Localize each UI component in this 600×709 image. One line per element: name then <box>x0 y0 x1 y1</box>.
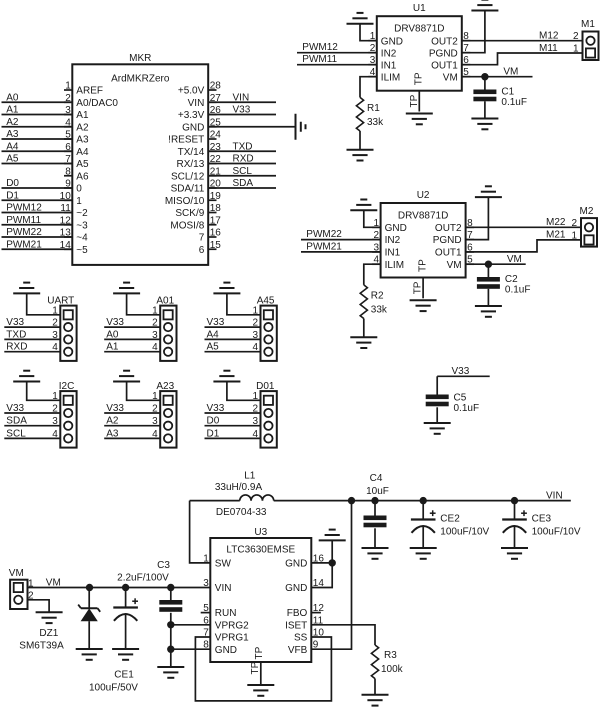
wire R1 to ground <box>359 131 361 149</box>
wire A45 net A4 <box>205 329 261 340</box>
connector UART body <box>47 295 76 361</box>
wire U1 PGND to ground <box>462 11 485 53</box>
ground VM header pin2 <box>36 612 63 623</box>
wire VM header pin2 to ground <box>28 600 50 612</box>
svg-text:VM: VM <box>46 577 61 588</box>
svg-text:VM: VM <box>503 67 518 78</box>
ground U1 PGND <box>471 0 498 11</box>
wire A01 pin1 to ground <box>127 293 161 314</box>
ground U1 pin1 <box>347 13 374 24</box>
wire L1 left <box>190 500 240 502</box>
svg-text:IN2: IN2 <box>385 235 401 246</box>
capacitor C4 10uF <box>364 473 389 527</box>
ground for A23 <box>113 371 140 382</box>
svg-text:MISO/10: MISO/10 <box>165 196 205 207</box>
wire U3 GND8 <box>171 648 211 650</box>
IC U3 LTC3630EMSE body <box>210 527 311 662</box>
svg-text:24: 24 <box>210 130 222 141</box>
svg-text:A5: A5 <box>207 342 220 353</box>
svg-text:2: 2 <box>571 218 577 229</box>
wire I2C net SCL <box>4 428 60 439</box>
wire U3 GND16 <box>311 562 332 564</box>
svg-text:U2: U2 <box>417 190 430 201</box>
wire U2 OUT1 to M2 pin1 <box>466 230 581 252</box>
svg-text:R1: R1 <box>367 103 380 114</box>
svg-text:A6: A6 <box>76 171 89 182</box>
svg-text:18: 18 <box>210 203 222 214</box>
svg-text:IN2: IN2 <box>381 48 397 59</box>
ground CE1 <box>112 649 139 660</box>
svg-text:C3: C3 <box>157 560 170 571</box>
svg-text:TX/14: TX/14 <box>178 147 205 158</box>
junction C3-VPRG2 <box>167 621 174 628</box>
svg-text:10uF: 10uF <box>366 486 389 497</box>
ground C5 <box>424 423 451 434</box>
wire VM rail <box>28 577 211 588</box>
svg-text:A3: A3 <box>106 428 119 439</box>
svg-text:D0: D0 <box>6 178 19 189</box>
wire D01 pin1 to ground <box>227 382 261 401</box>
resistor R3 100k <box>371 645 403 679</box>
svg-text:M2: M2 <box>580 206 594 217</box>
svg-text:CE2: CE2 <box>440 514 460 525</box>
svg-text:PWM12: PWM12 <box>6 203 42 214</box>
svg-text:PGND: PGND <box>433 235 462 246</box>
wire A23 pin1 to ground <box>127 382 161 401</box>
svg-text:SS: SS <box>294 633 308 644</box>
ground for UART <box>13 283 40 294</box>
svg-text:OUT1: OUT1 <box>435 248 462 259</box>
svg-text:DRV8871D: DRV8871D <box>398 210 448 221</box>
junction C4 <box>371 497 378 504</box>
svg-text:VM: VM <box>447 260 462 271</box>
junction DZ1 <box>86 584 93 591</box>
svg-text:SW: SW <box>215 559 232 570</box>
svg-text:V33: V33 <box>207 317 225 328</box>
junction C3-GND <box>167 646 174 653</box>
svg-text:VM: VM <box>9 568 24 579</box>
svg-text:C4: C4 <box>370 473 383 484</box>
IC U2 pins <box>372 218 474 272</box>
svg-text:A3: A3 <box>6 129 19 140</box>
svg-text:VFB: VFB <box>288 645 308 656</box>
svg-text:0.1uF: 0.1uF <box>454 403 480 414</box>
svg-text:16: 16 <box>210 228 222 239</box>
svg-text:V33: V33 <box>207 403 225 414</box>
test point TP of U2 <box>413 278 424 299</box>
svg-text:PWM22: PWM22 <box>306 229 342 240</box>
svg-text:C2: C2 <box>505 274 518 285</box>
svg-text:A4: A4 <box>76 147 89 158</box>
wire U3 FBO stub <box>311 612 321 614</box>
wire U3 ISET to R3 <box>311 625 375 645</box>
svg-text:VM: VM <box>443 72 458 83</box>
svg-text:A1: A1 <box>106 342 119 353</box>
svg-text:DZ1: DZ1 <box>39 628 58 639</box>
svg-text:M12: M12 <box>539 31 559 42</box>
svg-text:OUT2: OUT2 <box>435 223 462 234</box>
svg-text:V33: V33 <box>452 366 470 377</box>
wire C4 to ground <box>374 528 376 547</box>
ground U2 pin1 <box>350 200 377 211</box>
svg-text:TP: TP <box>250 661 261 674</box>
svg-text:GND: GND <box>285 559 307 570</box>
wire U2 pin1 GND <box>364 210 381 227</box>
svg-text:A1: A1 <box>6 105 19 116</box>
wire CE1 to ground <box>125 614 127 649</box>
wire C1 to ground <box>484 101 486 118</box>
svg-text:PWM21: PWM21 <box>306 241 342 252</box>
svg-text:2: 2 <box>573 31 579 42</box>
svg-text:R3: R3 <box>384 650 397 661</box>
wire U1 pin1 GND <box>360 24 377 41</box>
svg-text:L1: L1 <box>244 471 256 482</box>
svg-text:2.2uF/100V: 2.2uF/100V <box>117 573 169 584</box>
wire D01 net D1 <box>205 428 261 439</box>
inductor L1 33uH <box>215 471 274 518</box>
svg-text:ILIM: ILIM <box>385 260 404 271</box>
svg-text:A0/DAC0: A0/DAC0 <box>76 98 118 109</box>
ground U3 GND16 <box>319 530 346 541</box>
wire U3 VPRG1 to SS loop <box>195 637 331 701</box>
capacitor C3 2.2uF/100V <box>117 560 182 612</box>
junction U1 VM <box>481 73 488 80</box>
svg-text:1: 1 <box>76 196 82 207</box>
svg-text:ILIM: ILIM <box>381 72 400 83</box>
capacitor C1 0.1uF <box>473 77 527 108</box>
wire U3 GND16 riser <box>331 540 333 563</box>
svg-text:33uH/0.9A: 33uH/0.9A <box>215 482 263 493</box>
wire A01 net A1 <box>104 342 160 353</box>
ground C4 <box>362 548 389 559</box>
junction CE2 <box>420 497 427 504</box>
svg-text:VIN: VIN <box>546 490 563 501</box>
IC U1 DRV8871D body <box>377 3 462 91</box>
svg-text:A2: A2 <box>6 117 19 128</box>
svg-text:33k: 33k <box>367 117 384 128</box>
IC MKR pin stubs, numbers and names <box>60 81 222 256</box>
svg-text:VPRG2: VPRG2 <box>215 620 249 631</box>
wire U1 OUT2 to M1 pin2 <box>462 31 583 42</box>
svg-text:CE1: CE1 <box>114 670 134 681</box>
ground for A01 <box>113 283 140 294</box>
svg-text:CE3: CE3 <box>532 514 552 525</box>
connector I2C body <box>52 381 76 448</box>
wire PWM22 to U2 IN2 <box>301 229 381 240</box>
svg-text:M21: M21 <box>546 230 566 241</box>
svg-text:RXD: RXD <box>6 342 27 353</box>
wire C2 to ground <box>487 289 489 306</box>
connector A01 body <box>152 295 176 361</box>
wire UART pin1 to ground <box>27 293 61 314</box>
wire U3 RUN stub <box>201 612 211 614</box>
svg-text:~3: ~3 <box>76 220 88 231</box>
svg-text:TXD: TXD <box>233 141 253 152</box>
wire VOUT rail <box>274 490 571 501</box>
svg-text:+5.0V: +5.0V <box>178 86 205 97</box>
svg-text:A45: A45 <box>257 295 275 306</box>
svg-text:TP: TP <box>409 94 420 107</box>
test point TP of U3 <box>250 661 261 684</box>
IC U2 DRV8871D body <box>381 190 466 278</box>
svg-text:PGND: PGND <box>429 48 458 59</box>
connector D01 body <box>252 381 276 448</box>
svg-text:~4: ~4 <box>76 233 88 244</box>
svg-text:SCL: SCL <box>233 166 253 177</box>
svg-text:V33: V33 <box>106 403 124 414</box>
capacitor CE3 100uF/10V <box>502 501 581 538</box>
svg-text:C1: C1 <box>501 87 514 98</box>
wire PWM12 to U1 IN2 <box>297 42 377 53</box>
svg-text:0: 0 <box>76 184 82 195</box>
ground CE2 <box>410 548 437 559</box>
svg-text:V33: V33 <box>6 403 24 414</box>
wires MKR right nets VIN V33 TXD RXD SCL SDA <box>208 92 276 189</box>
ground C2 <box>475 306 502 317</box>
svg-text:1: 1 <box>65 81 71 92</box>
junction U3 GND16 <box>329 559 336 566</box>
wire PWM11 to U1 IN1 <box>297 54 377 65</box>
svg-text:IN1: IN1 <box>381 60 397 71</box>
junction CE1 <box>122 584 129 591</box>
resistor R1 33k <box>356 97 384 131</box>
wire A45 pin1 to ground <box>227 293 261 314</box>
svg-text:GND: GND <box>381 36 403 47</box>
wire R3 to ground <box>374 679 376 695</box>
svg-text:LTC3630EMSE: LTC3630EMSE <box>226 545 295 556</box>
svg-text:15: 15 <box>210 240 222 251</box>
wire V33 node <box>437 366 490 394</box>
svg-text:OUT2: OUT2 <box>431 36 458 47</box>
ground R2 <box>350 337 377 348</box>
diode DZ1 SM6T39A <box>19 588 100 652</box>
svg-text:RXD: RXD <box>233 154 254 165</box>
svg-text:A5: A5 <box>76 159 89 170</box>
svg-text:~5: ~5 <box>76 245 88 256</box>
IC U1 pins <box>368 31 470 85</box>
ground for D01 <box>213 371 240 382</box>
svg-text:19: 19 <box>210 191 222 202</box>
wire A45 net V33 <box>205 317 261 328</box>
svg-text:0.1uF: 0.1uF <box>501 97 527 108</box>
svg-text:PWM21: PWM21 <box>6 239 42 250</box>
ground U1 TP <box>406 114 433 125</box>
svg-text:D1: D1 <box>207 428 220 439</box>
ground U3 TP <box>247 685 274 696</box>
wire U3 VFB to VOUT <box>311 501 351 650</box>
svg-text:A0: A0 <box>6 92 19 103</box>
wire CE2 to ground <box>422 526 424 548</box>
svg-text:DRV8871D: DRV8871D <box>394 24 444 35</box>
svg-text:A4: A4 <box>6 141 19 152</box>
junction U2 VM <box>485 261 492 268</box>
wire I2C net V33 <box>4 403 60 414</box>
svg-text:PWM22: PWM22 <box>6 227 42 238</box>
wires MKR left nets A0-A5 D0 D1 PWM <box>2 92 73 250</box>
svg-text:V33: V33 <box>233 105 251 116</box>
wire UART net TXD <box>4 329 60 340</box>
svg-text:U3: U3 <box>254 527 267 538</box>
ground C1 <box>471 119 498 130</box>
svg-text:AREF: AREF <box>76 86 103 97</box>
connector M1 <box>573 19 599 60</box>
ground C3 <box>157 667 184 678</box>
svg-text:M11: M11 <box>539 43 558 54</box>
svg-text:VIN: VIN <box>188 98 205 109</box>
ground U2 PGND <box>475 186 502 197</box>
svg-text:FBO: FBO <box>287 608 308 619</box>
wire A01 net V33 <box>104 317 160 328</box>
svg-text:SM6T39A: SM6T39A <box>19 640 64 651</box>
svg-text:7: 7 <box>199 233 205 244</box>
svg-text:D01: D01 <box>256 381 275 392</box>
svg-text:ArdMKRZero: ArdMKRZero <box>111 74 170 85</box>
ground MKR pin25 <box>296 114 306 140</box>
wire U2 PGND to ground <box>466 197 489 240</box>
svg-text:17: 17 <box>210 215 222 226</box>
wire MKR pin25 GND <box>208 126 295 128</box>
ground U2 TP <box>410 300 437 311</box>
svg-text:SDA: SDA <box>233 178 254 189</box>
svg-text:A01: A01 <box>156 295 174 306</box>
wire PWM21 to U2 IN1 <box>301 241 381 252</box>
wire DZ1 to ground <box>88 621 90 648</box>
svg-text:100uF/10V: 100uF/10V <box>532 527 581 538</box>
svg-text:TP: TP <box>254 646 265 659</box>
resistor R2 33k <box>360 285 388 319</box>
svg-text:100uF/10V: 100uF/10V <box>440 527 489 538</box>
ground R1 <box>347 150 374 161</box>
svg-text:I2C: I2C <box>59 381 75 392</box>
wire D01 net D0 <box>205 416 261 427</box>
svg-text:~2: ~2 <box>76 208 88 219</box>
svg-text:A5: A5 <box>6 154 19 165</box>
svg-text:GND: GND <box>385 223 407 234</box>
svg-text:3: 3 <box>203 578 209 589</box>
ground R3 <box>362 695 389 706</box>
wire U1 ILIM to R1 <box>360 77 377 98</box>
wire U3 VPRG2 <box>171 624 211 626</box>
IC U3 pin names and numbers <box>203 553 324 659</box>
wire U3 GND16 to GND14 <box>311 563 332 588</box>
wire CE3 to ground <box>514 526 516 548</box>
svg-text:SCL/12: SCL/12 <box>171 171 205 182</box>
wire SW riser <box>190 501 211 563</box>
svg-text:8: 8 <box>65 166 71 177</box>
capacitor C2 0.1uF <box>477 264 531 295</box>
IC MKR ArdMKRZero body <box>72 53 208 265</box>
test point TP of U1 <box>409 91 420 112</box>
capacitor CE2 100uF/10V <box>411 501 490 538</box>
svg-text:IN1: IN1 <box>385 248 401 259</box>
svg-text:33k: 33k <box>371 305 388 316</box>
ground for A45 <box>213 283 240 294</box>
wire U2 OUT2 to M2 pin2 <box>466 217 581 228</box>
svg-text:1: 1 <box>573 44 579 55</box>
svg-text:D0: D0 <box>207 416 220 427</box>
svg-text:1: 1 <box>571 230 577 241</box>
svg-text:28: 28 <box>210 81 222 92</box>
svg-text:VIN: VIN <box>215 583 232 594</box>
wire A23 net A2 <box>104 416 160 427</box>
svg-text:OUT1: OUT1 <box>431 60 458 71</box>
svg-text:PWM11: PWM11 <box>302 54 337 65</box>
wire D01 net V33 <box>205 403 261 414</box>
wire UART net RXD <box>4 342 60 353</box>
svg-text:SDA/11: SDA/11 <box>171 184 205 195</box>
svg-text:VPRG1: VPRG1 <box>215 633 249 644</box>
connector M2 <box>571 206 597 247</box>
svg-text:M1: M1 <box>581 19 595 30</box>
wire A23 net V33 <box>104 403 160 414</box>
svg-text:6: 6 <box>199 245 205 256</box>
svg-text:A2: A2 <box>106 416 119 427</box>
connector A23 body <box>152 381 176 448</box>
svg-text:SCL: SCL <box>6 428 26 439</box>
svg-text:V33: V33 <box>106 317 124 328</box>
svg-text:A1: A1 <box>76 110 89 121</box>
wire R2 to ground <box>363 319 365 337</box>
svg-text:A0: A0 <box>106 329 119 340</box>
capacitor CE1 100uF/50V <box>89 588 138 694</box>
wire C3 vertical <box>170 613 172 667</box>
svg-text:ISET: ISET <box>285 620 307 631</box>
svg-text:!RESET: !RESET <box>168 135 204 146</box>
svg-text:100uF/50V: 100uF/50V <box>89 683 138 694</box>
svg-text:VM: VM <box>507 254 522 265</box>
wire I2C pin1 to ground <box>27 382 61 401</box>
svg-text:100k: 100k <box>381 664 404 675</box>
ground DZ1 <box>76 649 103 660</box>
svg-text:TXD: TXD <box>6 329 26 340</box>
wire U1 OUT1 to M1 pin1 <box>462 43 583 65</box>
svg-text:A23: A23 <box>156 381 174 392</box>
svg-text:PWM11: PWM11 <box>6 215 41 226</box>
svg-text:C5: C5 <box>454 393 467 404</box>
junction CE3 <box>511 497 518 504</box>
svg-text:SCK/9: SCK/9 <box>175 208 204 219</box>
wire A45 net A5 <box>205 342 261 353</box>
svg-text:A2: A2 <box>76 122 89 133</box>
wire UART net V33 <box>4 317 60 328</box>
svg-text:+3.3V: +3.3V <box>178 110 205 121</box>
svg-text:V33: V33 <box>6 317 24 328</box>
ground for I2C <box>13 371 40 382</box>
svg-text:A4: A4 <box>207 329 220 340</box>
svg-text:TP: TP <box>413 281 424 294</box>
svg-text:A3: A3 <box>76 135 89 146</box>
ground CE3 <box>501 548 528 559</box>
svg-text:MOSI/8: MOSI/8 <box>170 220 204 231</box>
svg-text:SDA: SDA <box>6 416 27 427</box>
svg-text:PWM12: PWM12 <box>302 42 338 53</box>
svg-text:M22: M22 <box>546 217 566 228</box>
wire I2C net SDA <box>4 416 60 427</box>
junction VFB tap <box>348 497 355 504</box>
svg-text:TP: TP <box>417 259 428 272</box>
junction C3 <box>167 584 174 591</box>
capacitor C5 0.1uF <box>426 393 479 415</box>
svg-text:0.1uF: 0.1uF <box>505 285 531 296</box>
svg-text:DE0704-33: DE0704-33 <box>216 507 267 518</box>
svg-text:GND: GND <box>285 583 307 594</box>
svg-text:MKR: MKR <box>129 53 151 64</box>
svg-text:R2: R2 <box>371 291 384 302</box>
wire A01 net A0 <box>104 329 160 340</box>
svg-text:RX/13: RX/13 <box>177 159 205 170</box>
wire U1 VM node <box>462 67 533 78</box>
svg-text:GND: GND <box>182 122 204 133</box>
